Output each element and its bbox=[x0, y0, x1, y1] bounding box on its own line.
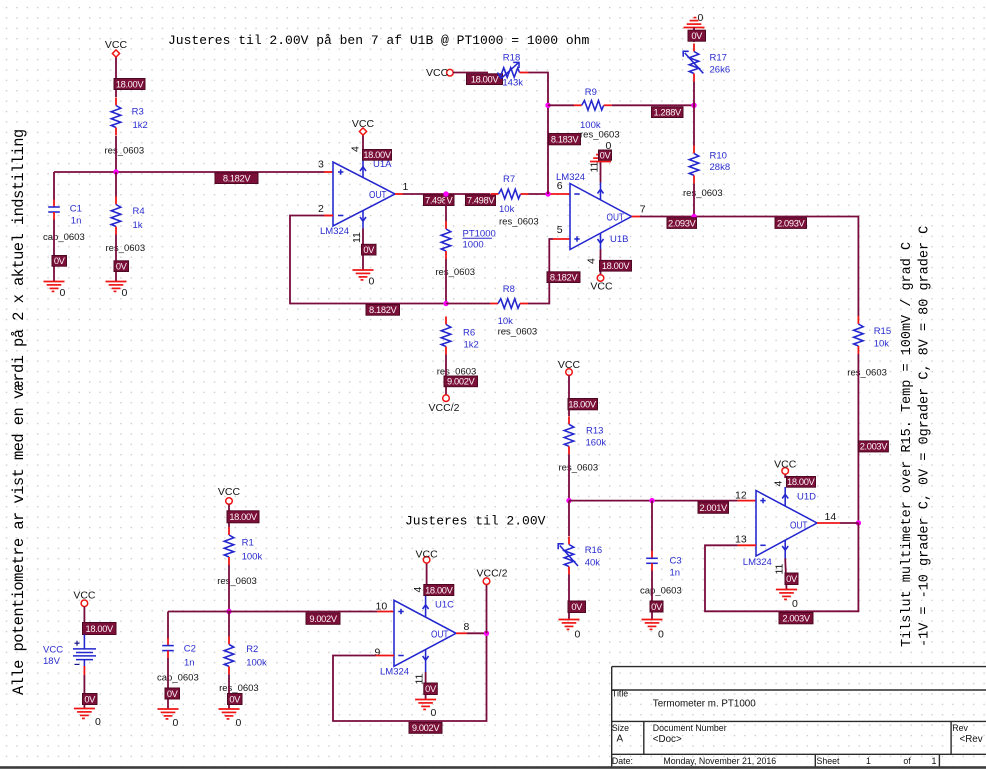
wire U1D feedback loop bbox=[705, 523, 858, 611]
svg-text:cap_0603: cap_0603 bbox=[43, 232, 85, 243]
svg-text:R15: R15 bbox=[874, 326, 891, 337]
svg-text:R17: R17 bbox=[710, 53, 727, 64]
wire C2 to ground bbox=[167, 658, 169, 709]
svg-text:res_0603: res_0603 bbox=[559, 463, 599, 474]
node VCC/2 R6 bbox=[443, 395, 450, 402]
svg-text:11: 11 bbox=[589, 161, 601, 172]
wire VCC U1C bbox=[426, 563, 428, 585]
wire net 8.182V to U1A pin3 bbox=[54, 171, 324, 173]
svg-text:0: 0 bbox=[60, 287, 66, 299]
svg-text:0: 0 bbox=[369, 276, 375, 288]
svg-text:0V: 0V bbox=[84, 694, 96, 704]
ground battery bbox=[74, 709, 101, 729]
svg-text:R10: R10 bbox=[710, 151, 727, 162]
svg-text:8.182V: 8.182V bbox=[550, 272, 579, 282]
voltage label 7.498V second bbox=[466, 195, 496, 206]
pin stub U1B out bbox=[632, 216, 641, 218]
ground R16 bbox=[559, 620, 581, 641]
junction node R1/R2 bbox=[226, 609, 231, 614]
wire PT1000 top bbox=[445, 194, 447, 221]
svg-text:8.182V: 8.182V bbox=[223, 173, 252, 183]
U1B power pin 4 bottom bbox=[598, 233, 604, 249]
wire node to U1C pin10 bbox=[168, 611, 377, 613]
node VCC battery bbox=[81, 600, 88, 607]
voltage label 8.182V riser bbox=[547, 272, 580, 283]
voltage label 18.00V U1B bbox=[600, 260, 632, 271]
svg-text:OUT: OUT bbox=[607, 211, 625, 223]
svg-text:4: 4 bbox=[412, 587, 424, 593]
svg-text:Monday, November 21, 2016: Monday, November 21, 2016 bbox=[663, 756, 776, 766]
svg-text:0: 0 bbox=[575, 629, 581, 641]
svg-text:Tilslut multimeter over R15. T: Tilslut multimeter over R15. Temp = 100m… bbox=[900, 242, 915, 647]
ground U1D bbox=[776, 590, 798, 611]
svg-text:8.182V: 8.182V bbox=[369, 305, 398, 315]
svg-text:1.288V: 1.288V bbox=[654, 107, 683, 117]
wire R3 to node bbox=[115, 136, 117, 172]
svg-text:0: 0 bbox=[236, 717, 242, 729]
svg-text:C1: C1 bbox=[70, 204, 82, 215]
resistor R7 bbox=[491, 174, 539, 228]
svg-text:0: 0 bbox=[431, 707, 437, 719]
svg-text:18.00V: 18.00V bbox=[602, 261, 631, 271]
svg-text:Date:: Date: bbox=[612, 756, 633, 766]
svg-text:U1C: U1C bbox=[435, 600, 454, 611]
svg-text:100k: 100k bbox=[246, 658, 267, 669]
wire U1A pin11 to ground bbox=[362, 229, 364, 271]
U1B power pin 11 top bbox=[598, 183, 604, 201]
ground U1A bbox=[353, 270, 375, 288]
wire U1B pin4 to VCC bbox=[600, 249, 602, 275]
junction node U1D out bbox=[856, 520, 861, 525]
svg-text:4: 4 bbox=[773, 481, 785, 487]
svg-text:7.498V: 7.498V bbox=[425, 195, 454, 205]
wire R1 to node bbox=[228, 565, 230, 612]
svg-text:1000: 1000 bbox=[463, 240, 484, 251]
junction node U1C out bbox=[484, 631, 489, 636]
voltage label 18.00V R18 bbox=[467, 74, 503, 85]
battery VCC 18V bbox=[43, 635, 96, 668]
voltage label 18.00V battery bbox=[83, 623, 117, 635]
svg-text:res_0603: res_0603 bbox=[499, 217, 539, 228]
svg-text:VCC: VCC bbox=[416, 549, 439, 561]
node VCC/2 U1C bbox=[483, 578, 490, 585]
capacitor C2 bbox=[157, 638, 199, 683]
wire C3 to ground bbox=[651, 571, 653, 620]
junction node R9 branch bbox=[545, 103, 550, 108]
op-amp U1B bbox=[556, 172, 632, 250]
voltage label 18.00V U1D bbox=[787, 477, 816, 488]
wire R15 to U1D out bbox=[857, 354, 859, 523]
voltage label 0V U1C bbox=[424, 683, 438, 695]
resistor R1 bbox=[217, 527, 262, 587]
svg-text:VCC: VCC bbox=[774, 459, 797, 471]
wire ground to R17 bbox=[693, 28, 695, 43]
voltage label 8.182V bbox=[215, 173, 258, 184]
voltage label 0V C1 bbox=[52, 256, 67, 267]
svg-text:8.183V: 8.183V bbox=[551, 134, 580, 144]
svg-text:10k: 10k bbox=[874, 339, 890, 350]
voltage label 9.002V U1C feedback bbox=[409, 722, 442, 733]
op-amp U1A bbox=[320, 159, 395, 237]
wire U1B pin11 to ground bbox=[600, 162, 602, 183]
svg-text:res_0603: res_0603 bbox=[217, 576, 257, 587]
svg-text:res_0603: res_0603 bbox=[580, 130, 620, 141]
svg-text:9: 9 bbox=[375, 647, 381, 659]
resistor R13 bbox=[559, 416, 607, 473]
svg-text:0V: 0V bbox=[167, 689, 179, 699]
node VCC U1D bbox=[782, 468, 789, 475]
svg-text:of: of bbox=[903, 756, 911, 766]
wire R13 to node bbox=[568, 454, 570, 500]
U1C power pin 11 bbox=[423, 650, 429, 673]
wire U1D out to junction bbox=[840, 522, 858, 524]
junction node R13/R16 bbox=[566, 498, 571, 503]
capacitor C1 bbox=[43, 200, 85, 244]
pin stub U1B pin5 bbox=[553, 238, 570, 240]
svg-text:10k: 10k bbox=[498, 316, 514, 327]
svg-text:1k2: 1k2 bbox=[133, 120, 148, 131]
svg-text:Alle potentiometre ar vist med: Alle potentiometre ar vist med en værdi … bbox=[10, 129, 28, 695]
pin stub U1B pin6 bbox=[548, 193, 570, 195]
wire C1 to ground bbox=[53, 220, 55, 282]
svg-text:res_0603: res_0603 bbox=[435, 267, 475, 278]
resistor R3 bbox=[105, 98, 148, 157]
svg-text:0: 0 bbox=[122, 287, 128, 299]
junction node C3 bbox=[649, 498, 654, 503]
wire VCC to R1 bbox=[228, 505, 230, 528]
svg-text:VCC: VCC bbox=[352, 118, 375, 130]
resistor R9 bbox=[574, 87, 620, 141]
pin stub U1C pin9 bbox=[376, 655, 395, 657]
svg-text:R18: R18 bbox=[503, 53, 520, 64]
junction node PT1000 top bbox=[443, 191, 448, 196]
svg-text:1: 1 bbox=[403, 181, 409, 193]
wire C3 branch bbox=[651, 501, 653, 551]
wire PT1000 bottom bbox=[445, 259, 447, 304]
voltage label 0V battery bbox=[83, 694, 98, 705]
svg-text:2.003V: 2.003V bbox=[782, 613, 811, 623]
voltage label 18.00V R3 bbox=[114, 79, 145, 90]
svg-text:28k8: 28k8 bbox=[710, 162, 731, 173]
svg-text:2.093V: 2.093V bbox=[668, 218, 697, 228]
U1D power pin 4 bbox=[782, 487, 788, 507]
ground U1C bbox=[415, 700, 436, 720]
wire battery to ground bbox=[83, 666, 85, 675]
voltage label 9.002V R6 bbox=[444, 376, 478, 387]
capacitor C3 bbox=[640, 551, 682, 597]
svg-text:VCC: VCC bbox=[105, 39, 128, 51]
wire U1C out to bus bbox=[467, 632, 487, 634]
svg-text:0: 0 bbox=[95, 716, 101, 728]
wire R8 to U1B pin5 riser bbox=[528, 239, 553, 304]
svg-text:R9: R9 bbox=[585, 87, 597, 98]
wire R16 to ground bbox=[568, 575, 570, 620]
voltage label 2.093V first bbox=[667, 218, 697, 229]
U1A power pin 11 bbox=[360, 211, 366, 229]
svg-text:18.00V: 18.00V bbox=[568, 399, 597, 409]
svg-text:160k: 160k bbox=[586, 438, 607, 449]
junction node R6/R8 bbox=[443, 301, 448, 306]
svg-text:Justeres til 2.00V: Justeres til 2.00V bbox=[405, 514, 546, 529]
wire VCC U1D bbox=[784, 474, 786, 478]
svg-text:18.00V: 18.00V bbox=[229, 512, 258, 522]
svg-text:1k: 1k bbox=[133, 220, 143, 231]
U1A power pin 4 bbox=[360, 161, 366, 178]
wire node to R16 bbox=[568, 501, 570, 536]
svg-text:0V: 0V bbox=[229, 694, 241, 704]
svg-text:18.00V: 18.00V bbox=[787, 477, 816, 487]
voltage label 7.498V first bbox=[424, 195, 455, 206]
svg-text:18V: 18V bbox=[43, 656, 61, 667]
resistor R6 bbox=[437, 317, 479, 378]
node VCC R18 bbox=[447, 69, 454, 76]
wire R2 branch bbox=[228, 612, 230, 637]
svg-text:cap_0603: cap_0603 bbox=[157, 673, 199, 684]
svg-text:VCC: VCC bbox=[590, 281, 613, 293]
voltage label 1.288V bbox=[652, 107, 684, 118]
svg-text:Termometer m. PT1000: Termometer m. PT1000 bbox=[653, 699, 756, 710]
svg-text:<Rev: <Rev bbox=[960, 734, 983, 745]
node VCC R1 bbox=[226, 498, 233, 505]
svg-text:res_0603: res_0603 bbox=[219, 683, 259, 694]
voltage label 0V U1A bbox=[362, 244, 377, 255]
junction node R3/R4 bbox=[113, 169, 118, 174]
svg-text:U1B: U1B bbox=[610, 234, 628, 245]
svg-text:LM324: LM324 bbox=[743, 557, 772, 568]
voltage label 2.003V bus bbox=[858, 441, 888, 452]
wire U1A out net bbox=[403, 193, 490, 195]
ground R17 flipped bbox=[684, 12, 705, 28]
svg-text:0V: 0V bbox=[425, 684, 437, 694]
voltage label 0V R4 bbox=[114, 261, 129, 272]
svg-text:C3: C3 bbox=[670, 556, 682, 567]
svg-text:18.00V: 18.00V bbox=[363, 150, 392, 160]
ground C3 bbox=[642, 620, 665, 641]
wire R9 to R17 column bbox=[612, 104, 694, 106]
resistor R2 bbox=[219, 636, 267, 694]
svg-text:A: A bbox=[617, 734, 624, 745]
wire U1D pin11 to ground bbox=[785, 559, 786, 590]
voltage label 0V R16 bbox=[568, 601, 586, 613]
svg-text:11: 11 bbox=[774, 563, 786, 574]
wire U1C pin11 to ground bbox=[425, 672, 427, 700]
resistor R8 bbox=[490, 284, 537, 338]
wire R2 to ground bbox=[228, 674, 230, 709]
voltage label 0V U1D bbox=[785, 573, 798, 585]
voltage label 0V U1B bbox=[599, 150, 612, 160]
svg-text:res_0603: res_0603 bbox=[498, 327, 538, 338]
voltage label 0V C3 bbox=[650, 601, 663, 612]
sheet bottom border bbox=[0, 766, 986, 769]
svg-text:18.00V: 18.00V bbox=[86, 624, 115, 634]
svg-text:VCC: VCC bbox=[426, 67, 449, 79]
svg-text:10: 10 bbox=[376, 601, 388, 613]
potentiometer R16 bbox=[558, 537, 602, 575]
resistor R10 bbox=[683, 145, 730, 199]
title block bbox=[612, 667, 986, 767]
svg-text:7.498V: 7.498V bbox=[467, 195, 496, 205]
wire U1C feedback loop bbox=[333, 633, 487, 721]
pin stub U1C pin10 bbox=[377, 611, 394, 613]
svg-text:0V: 0V bbox=[691, 31, 703, 41]
node VCC R3 bbox=[112, 50, 119, 57]
wire to C1 bbox=[53, 172, 55, 200]
ground R2 bbox=[219, 709, 242, 729]
svg-text:R8: R8 bbox=[503, 284, 515, 295]
wire VCC U1A bbox=[362, 135, 364, 150]
wire to R8 bbox=[446, 303, 490, 305]
wire bus to R9 bbox=[548, 104, 574, 106]
svg-text:0: 0 bbox=[173, 717, 179, 729]
svg-text:0V: 0V bbox=[600, 150, 612, 160]
ground C2 bbox=[158, 709, 179, 729]
svg-text:OUT: OUT bbox=[790, 519, 808, 531]
wire VCC to battery bbox=[83, 607, 85, 623]
node VCC R13 bbox=[566, 369, 573, 376]
svg-text:18.00V: 18.00V bbox=[116, 79, 145, 89]
svg-text:R16: R16 bbox=[585, 545, 602, 556]
pin stub U1A out bbox=[395, 193, 403, 195]
wire R17 to R10 bbox=[693, 82, 695, 146]
wire R18 to bus bbox=[529, 73, 549, 195]
svg-text:5: 5 bbox=[557, 224, 563, 236]
svg-text:18.00V: 18.00V bbox=[425, 585, 454, 595]
svg-text:C2: C2 bbox=[184, 644, 196, 655]
svg-text:2.001V: 2.001V bbox=[700, 503, 729, 513]
ground C1 bbox=[44, 282, 66, 300]
svg-text:res_0603: res_0603 bbox=[105, 146, 145, 157]
wire U1A feedback bbox=[324, 215, 333, 217]
svg-text:1n: 1n bbox=[670, 568, 681, 579]
svg-text:Title: Title bbox=[612, 689, 628, 699]
svg-text:res_0603: res_0603 bbox=[106, 243, 146, 254]
wire U1B out net to R15 bus bbox=[640, 217, 858, 317]
svg-text:0V: 0V bbox=[363, 245, 375, 255]
svg-text:18.00V: 18.00V bbox=[471, 74, 500, 84]
svg-text:6: 6 bbox=[557, 180, 563, 192]
svg-text:12: 12 bbox=[735, 490, 747, 502]
op-amp U1D bbox=[743, 491, 817, 569]
svg-text:7: 7 bbox=[640, 204, 646, 216]
wire R6 to VCC/2 bbox=[445, 355, 447, 395]
node VCC U1C bbox=[423, 557, 430, 564]
svg-text:R13: R13 bbox=[586, 426, 603, 437]
svg-text:1n: 1n bbox=[71, 216, 82, 227]
svg-text:LM324: LM324 bbox=[380, 667, 409, 678]
svg-text:U1D: U1D bbox=[797, 492, 816, 503]
svg-text:4: 4 bbox=[586, 258, 598, 264]
svg-text:0V: 0V bbox=[651, 602, 663, 612]
svg-text:-1V = -10 grader C, 0V = 0grad: -1V = -10 grader C, 0V = 0grader C, 8V =… bbox=[918, 226, 933, 647]
wire VCC/2 bus bbox=[486, 585, 488, 634]
svg-text:R3: R3 bbox=[132, 107, 144, 118]
wire node to U1D pin12 bbox=[569, 500, 738, 502]
svg-text:0V: 0V bbox=[54, 256, 66, 266]
wire VCC to R13 bbox=[568, 376, 570, 417]
potentiometer R17 bbox=[683, 44, 730, 82]
svg-text:2.093V: 2.093V bbox=[777, 218, 806, 228]
wire VCC to R18 bbox=[453, 72, 488, 74]
svg-text:Document Number: Document Number bbox=[653, 723, 727, 733]
ground U1B flipped bbox=[590, 140, 612, 162]
svg-text:<Doc>: <Doc> bbox=[653, 734, 682, 745]
wire C2 branch bbox=[167, 612, 169, 639]
U1D power pin 11 bbox=[782, 540, 788, 559]
svg-text:9.002V: 9.002V bbox=[309, 614, 338, 624]
node VCC U1A bbox=[359, 128, 366, 135]
voltage label 0V C2 bbox=[165, 688, 180, 699]
resistor R15 bbox=[847, 316, 891, 379]
resistor PT1000 bbox=[435, 221, 495, 278]
svg-text:VCC: VCC bbox=[73, 590, 96, 602]
svg-text:40k: 40k bbox=[585, 558, 601, 569]
svg-text:R2: R2 bbox=[246, 644, 258, 655]
svg-text:1k2: 1k2 bbox=[464, 340, 479, 351]
svg-text:Sheet: Sheet bbox=[817, 756, 841, 766]
svg-text:Size: Size bbox=[612, 723, 629, 733]
svg-text:0V: 0V bbox=[786, 574, 798, 584]
svg-text:Justeres til 2.00V på ben 7 af: Justeres til 2.00V på ben 7 af U1B @ PT1… bbox=[168, 33, 589, 48]
voltage label 8.183V bbox=[549, 134, 581, 145]
svg-text:0V: 0V bbox=[571, 602, 583, 612]
voltage label 0V R17 bbox=[688, 30, 706, 41]
junction node R7/bus bbox=[545, 191, 550, 196]
svg-text:11: 11 bbox=[351, 232, 363, 243]
wire R7 to U1B node bbox=[529, 193, 549, 195]
op-amp U1C bbox=[380, 600, 456, 678]
svg-text:26k6: 26k6 bbox=[710, 65, 731, 76]
voltage label 18.00V U1C bbox=[424, 585, 454, 596]
pin stub U1D pin13 bbox=[738, 544, 756, 546]
svg-text:R7: R7 bbox=[503, 174, 515, 185]
svg-text:OUT: OUT bbox=[431, 628, 449, 640]
wire VCC to R3 bbox=[115, 57, 117, 97]
junction node R10 out bbox=[691, 214, 696, 219]
svg-text:14: 14 bbox=[825, 511, 837, 523]
svg-text:2: 2 bbox=[318, 203, 324, 215]
voltage label 0V R2 bbox=[228, 694, 243, 705]
svg-text:VCC/2: VCC/2 bbox=[429, 402, 460, 414]
voltage label 8.182V feedback bbox=[366, 305, 400, 316]
svg-text:1n: 1n bbox=[184, 658, 195, 669]
svg-text:Rev: Rev bbox=[952, 723, 968, 733]
svg-text:VCC: VCC bbox=[218, 486, 241, 498]
wire R4 to ground bbox=[115, 235, 117, 282]
svg-text:LM324: LM324 bbox=[320, 226, 349, 237]
svg-text:R6: R6 bbox=[463, 328, 475, 339]
svg-text:OUT: OUT bbox=[369, 189, 387, 201]
svg-text:10k: 10k bbox=[499, 204, 515, 215]
svg-text:res_0603: res_0603 bbox=[847, 368, 887, 379]
svg-text:VCC: VCC bbox=[558, 359, 581, 371]
svg-text:res_0603: res_0603 bbox=[683, 188, 723, 199]
svg-text:9.002V: 9.002V bbox=[447, 377, 476, 387]
resistor R4 bbox=[106, 197, 146, 255]
pin stub U1D out bbox=[817, 522, 840, 524]
svg-text:1: 1 bbox=[932, 756, 937, 766]
U1C power pin 4 bbox=[423, 596, 429, 617]
pin stub U1D pin12 bbox=[738, 500, 756, 502]
svg-text:4: 4 bbox=[350, 146, 362, 152]
svg-text:R4: R4 bbox=[133, 206, 145, 217]
svg-text:13: 13 bbox=[735, 534, 747, 546]
svg-text:R1: R1 bbox=[242, 538, 254, 549]
voltage label 2.093V second bbox=[775, 218, 807, 229]
svg-text:0: 0 bbox=[698, 12, 704, 24]
svg-text:0: 0 bbox=[792, 598, 798, 610]
svg-text:9.002V: 9.002V bbox=[412, 723, 441, 733]
svg-text:2.003V: 2.003V bbox=[860, 442, 889, 452]
